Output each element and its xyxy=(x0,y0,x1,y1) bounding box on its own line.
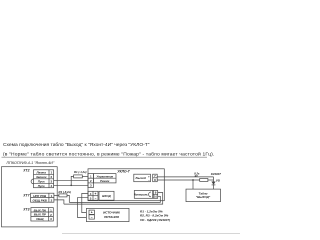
resistor R2 xyxy=(200,179,208,182)
node junction drop to tableau xyxy=(192,179,194,181)
diode VD xyxy=(211,177,215,189)
svg-text:Лампа: Лампа xyxy=(35,171,46,175)
svg-text:ППКОПУИ9-4-1 "Яхонт-4И": ППКОПУИ9-4-1 "Яхонт-4И" xyxy=(7,161,55,165)
svg-text:НРК РКВ: НРК РКВ xyxy=(33,194,47,198)
svg-text:Пуск: Пуск xyxy=(38,184,45,188)
wire terminal 8 to R2 xyxy=(157,179,200,181)
contact arc on kontrol block xyxy=(149,192,151,197)
title underline rule xyxy=(2,156,208,158)
svg-text:Контроль: Контроль xyxy=(134,192,148,196)
wire R3 down to control run xyxy=(67,195,69,202)
svg-text:Пуск: Пуск xyxy=(38,180,45,184)
resistor R3 xyxy=(59,194,67,197)
svg-text:Управление: Управление xyxy=(96,174,113,178)
svg-text:ОБЩ: ОБЩ xyxy=(36,217,43,221)
svg-text:–: – xyxy=(95,197,97,201)
node junction on wire xyxy=(70,184,72,186)
svg-text:VD: VD xyxy=(216,178,220,182)
UKLO-T VHOD block xyxy=(99,191,114,200)
svg-text:ВЫХ ПР: ВЫХ ПР xyxy=(34,213,46,217)
svg-text:ПИТАНИЯ: ПИТАНИЯ xyxy=(104,215,120,219)
connector XT3 terminal table xyxy=(31,208,53,222)
wire drop to tableau minus xyxy=(192,180,194,189)
svg-text:Схема подключения табло "Выход: Схема подключения табло "Выход" к "Яхонт… xyxy=(3,142,150,148)
wire PSU minus to terminal 5 xyxy=(77,198,88,218)
svg-text:ОБЩ РКВ: ОБЩ РКВ xyxy=(33,198,48,202)
UKLO-T control (kontrol) block xyxy=(134,191,153,199)
svg-text:R3 (-8,2к): R3 (-8,2к) xyxy=(59,190,72,194)
resistor R1 xyxy=(74,175,83,178)
wire junction up to R1 xyxy=(71,176,73,185)
wire XT7-1 to R3 xyxy=(54,194,59,196)
notes text xyxy=(140,209,170,221)
connector arc XT2 xyxy=(31,179,33,184)
wire terminal 7 to diode VD xyxy=(157,176,213,178)
control run to terminal 9 xyxy=(64,193,163,205)
UKLO-T box xyxy=(88,169,164,201)
wire XT2-4 to UKLO-T-3 xyxy=(54,184,88,186)
svg-text:Режим: Режим xyxy=(100,179,110,183)
UKLO-T right terminal column 7-8 xyxy=(153,174,158,182)
svg-text:Звонок: Звонок xyxy=(36,175,47,179)
svg-text:–: – xyxy=(91,215,93,219)
svg-text:+: + xyxy=(95,192,97,196)
svg-text:Выход: Выход xyxy=(136,176,146,180)
wire XT7-2 jog down xyxy=(54,200,64,204)
svg-text:ВЫХ ПН: ВЫХ ПН xyxy=(34,208,47,212)
panel Yakhont-4I box xyxy=(2,167,58,227)
connector XT2 terminal table xyxy=(34,170,54,188)
connector XT7 terminal table xyxy=(31,193,54,202)
svg-text:УКЛО-Т: УКЛО-Т xyxy=(117,169,130,173)
svg-text:R1 (-1,2к): R1 (-1,2к) xyxy=(74,170,87,174)
svg-text:+: + xyxy=(91,211,93,215)
wire R1 to UKLO-T-1 xyxy=(82,175,88,177)
svg-text:ИСТОЧНИК: ИСТОЧНИК xyxy=(103,210,121,214)
UKLO-T control block labels xyxy=(94,174,117,183)
wire PSU plus to terminal 4 xyxy=(82,193,88,212)
svg-text:VD - КД209 (1N4007): VD - КД209 (1N4007) xyxy=(140,218,170,222)
UKLO-T left terminal column 1-3 xyxy=(88,174,94,188)
wire XT2-3 to UKLO-T-2 xyxy=(54,180,88,182)
svg-text:ХТ3: ХТ3 xyxy=(22,208,29,212)
svg-text:(в "Норме" табло светится пост: (в "Норме" табло светится постоянно, в р… xyxy=(3,150,215,157)
bottom faint rule xyxy=(62,232,240,234)
UKLO-T output block xyxy=(134,174,151,182)
UKLO-T right terminal column 9-10 xyxy=(153,191,157,199)
tableau VYHOD box xyxy=(186,189,221,202)
svg-text:1N4007: 1N4007 xyxy=(211,172,222,176)
power supply box xyxy=(86,208,129,221)
control run to terminal 10 xyxy=(69,196,160,202)
svg-text:ХТ2: ХТ2 xyxy=(22,169,29,173)
wire R2 to diode cathode xyxy=(208,179,214,181)
svg-text:ВХОД: ВХОД xyxy=(102,194,111,198)
UKLO-T power input terminals 4-5 xyxy=(88,191,98,200)
svg-text:ХТ7: ХТ7 xyxy=(22,193,30,197)
svg-text:"ВЫХОД": "ВЫХОД" xyxy=(196,195,211,199)
